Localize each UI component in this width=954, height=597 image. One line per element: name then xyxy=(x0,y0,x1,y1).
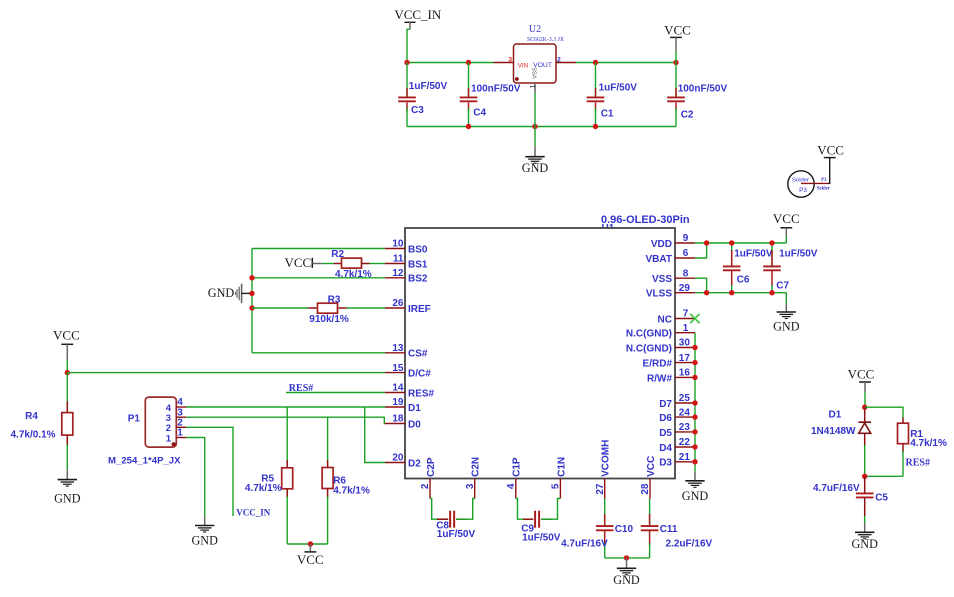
power flag VCC (right of U1) xyxy=(773,211,800,243)
label C4 value xyxy=(471,84,521,95)
svg-text:4: 4 xyxy=(506,483,517,489)
svg-text:18: 18 xyxy=(392,414,404,425)
no-connect X on pin 7 xyxy=(690,314,699,323)
U1 pin 29 VLSS xyxy=(646,283,695,300)
wire VCC to R2 xyxy=(322,263,334,265)
ground GND (below R4) xyxy=(54,469,81,505)
capacitor C4 xyxy=(460,63,478,127)
label R4 value xyxy=(11,429,56,440)
svg-text:21: 21 xyxy=(679,452,691,463)
wire branch D1 to D2 xyxy=(365,407,385,463)
svg-text:GND: GND xyxy=(682,489,709,503)
label U1 part 0.96-OLED-30Pin xyxy=(601,214,690,226)
svg-text:C1P: C1P xyxy=(512,457,523,477)
capacitor C7 xyxy=(763,243,781,293)
svg-text:100nF/50V: 100nF/50V xyxy=(471,84,521,95)
svg-text:C2P: C2P xyxy=(426,457,437,477)
svg-text:E/RD#: E/RD# xyxy=(643,359,673,370)
power flag VCC (below R5/R6) xyxy=(297,544,324,567)
label C2 value xyxy=(678,84,728,95)
svg-text:VCC: VCC xyxy=(297,552,324,567)
net label VCC_IN xyxy=(236,507,271,517)
label C10 value xyxy=(561,539,608,550)
svg-text:1uF/50V: 1uF/50V xyxy=(734,249,773,260)
svg-text:VCC: VCC xyxy=(53,328,80,343)
U1 pin 13 CS# xyxy=(385,343,428,360)
U1 pin 30 N.C(GND) xyxy=(626,338,695,355)
node junction C7 top xyxy=(769,240,774,245)
diode D1 xyxy=(858,407,871,476)
svg-text:R4: R4 xyxy=(25,411,38,422)
svg-text:SC662K-3.3 JX: SC662K-3.3 JX xyxy=(527,37,565,43)
svg-text:Solder: Solder xyxy=(792,177,809,183)
svg-text:2: 2 xyxy=(557,56,561,63)
svg-text:R3: R3 xyxy=(328,294,341,305)
power flag VCC (at R2) xyxy=(284,255,322,270)
svg-text:RES#: RES# xyxy=(408,388,435,399)
U1 pin 17 E/RD# xyxy=(643,353,695,370)
wire VLSS rail xyxy=(695,292,786,294)
U1 pin 20 D2 xyxy=(385,453,421,470)
label P1 ref xyxy=(128,414,141,425)
label R1 value xyxy=(910,438,947,449)
svg-text:4.7uF/16V: 4.7uF/16V xyxy=(561,539,608,550)
node junction chain y417.1 xyxy=(692,414,697,419)
svg-text:VCC: VCC xyxy=(646,456,657,477)
svg-text:GND: GND xyxy=(208,286,235,300)
svg-text:16: 16 xyxy=(679,368,691,379)
node junction chain y461.8 xyxy=(692,459,697,464)
resistor R4 xyxy=(62,373,73,470)
svg-text:4.7k/1%: 4.7k/1% xyxy=(333,486,370,497)
label C7 ref xyxy=(776,281,789,292)
wire CS# xyxy=(252,352,385,354)
P1 pin 3 xyxy=(176,407,186,418)
resistor R2 xyxy=(334,258,370,268)
svg-text:D6: D6 xyxy=(659,413,672,424)
U1 pin 25 D7 xyxy=(659,393,695,410)
wire P1 pin1 to GND xyxy=(186,438,204,517)
svg-text:N.C(GND): N.C(GND) xyxy=(626,343,672,354)
net label RES# xyxy=(289,383,313,394)
svg-text:12: 12 xyxy=(392,268,404,279)
svg-text:28: 28 xyxy=(640,483,651,495)
wire U2 VSS to GND xyxy=(534,93,536,146)
svg-text:D2: D2 xyxy=(408,458,421,469)
U1 pin 21 D3 xyxy=(659,452,695,469)
svg-text:3: 3 xyxy=(508,56,512,63)
label R6 ref xyxy=(333,475,346,486)
svg-text:VCC_IN: VCC_IN xyxy=(236,507,271,517)
label C7 value xyxy=(779,249,818,260)
svg-text:VCOMH: VCOMH xyxy=(601,440,612,477)
svg-text:9: 9 xyxy=(683,233,689,244)
capacitor C3 xyxy=(398,63,416,127)
svg-text:C5: C5 xyxy=(875,492,888,503)
svg-text:C7: C7 xyxy=(776,281,789,292)
svg-text:VCC: VCC xyxy=(848,367,875,382)
power flag VCC (at P3) xyxy=(817,143,844,158)
label C10 ref xyxy=(615,524,634,535)
svg-text:27: 27 xyxy=(595,483,606,495)
node junction C6 top xyxy=(729,240,734,245)
svg-text:VSS: VSS xyxy=(652,274,672,285)
node junction BS2 xyxy=(249,275,254,280)
svg-text:25: 25 xyxy=(679,393,691,404)
P3 pin 1 xyxy=(801,178,831,191)
svg-text:N.C(GND): N.C(GND) xyxy=(626,329,672,340)
svg-text:GND: GND xyxy=(773,320,800,334)
node junction C3 top xyxy=(404,60,409,65)
label R5 ref xyxy=(261,474,274,485)
ground GND (right of U1) xyxy=(773,303,800,333)
P1 pin 1 xyxy=(176,428,186,439)
label R5 value xyxy=(245,483,282,494)
voltage regulator U2 xyxy=(514,24,565,83)
label R4 ref xyxy=(25,411,38,422)
wire VCC branch to R1 xyxy=(865,407,903,418)
U1 pin 22 D4 xyxy=(659,437,695,454)
P1 pin 2 xyxy=(176,418,186,429)
label C11 ref xyxy=(660,524,678,535)
svg-text:1N4148W: 1N4148W xyxy=(811,426,856,437)
svg-text:VDD: VDD xyxy=(651,239,672,250)
svg-text:P3: P3 xyxy=(821,178,827,183)
svg-text:1: 1 xyxy=(177,428,183,439)
connector P1 body xyxy=(145,397,176,447)
ground GND (top section) xyxy=(522,146,549,175)
svg-text:10: 10 xyxy=(392,239,404,250)
wire top rail VCC_IN to U2 VIN xyxy=(407,62,494,64)
svg-text:0.96-OLED-30Pin: 0.96-OLED-30Pin xyxy=(601,214,690,226)
U1 pin 9 VDD xyxy=(651,233,695,250)
svg-text:C4: C4 xyxy=(473,108,486,119)
capacitor C8 xyxy=(430,499,475,528)
wire BS2 xyxy=(252,277,385,279)
label R2 value xyxy=(335,269,372,280)
U1 pin 26 IREF xyxy=(385,298,431,315)
power flag VCC_IN xyxy=(394,7,442,63)
svg-text:GND: GND xyxy=(613,573,640,587)
resistor R1 xyxy=(898,418,909,477)
svg-text:GND: GND xyxy=(54,492,81,506)
node junction chain y431.9 xyxy=(692,429,697,434)
svg-text:C10: C10 xyxy=(615,524,634,535)
wire vertical bus (BS0/BS2/IREF/CS#) xyxy=(251,249,253,353)
node junction D1 top xyxy=(862,405,867,410)
svg-text:U2: U2 xyxy=(529,24,541,35)
ground GND (below C5) xyxy=(851,523,878,551)
U1 pin 18 D0 xyxy=(385,414,421,431)
label C1 ref xyxy=(601,109,614,120)
U1 pin 2 C2P xyxy=(420,457,437,498)
label P1 part xyxy=(108,455,181,466)
U1 pin 6 VBAT xyxy=(646,248,695,265)
svg-text:19: 19 xyxy=(392,397,404,408)
svg-text:P3: P3 xyxy=(799,187,807,194)
svg-text:VCC: VCC xyxy=(284,255,311,270)
svg-text:C2: C2 xyxy=(681,110,694,121)
U1 pin 24 D6 xyxy=(659,407,695,424)
svg-text:VCC_IN: VCC_IN xyxy=(394,7,442,22)
node junction C10/C11 GND xyxy=(624,555,629,560)
wire BS0 xyxy=(252,248,385,250)
node junction VSS/VLSS xyxy=(704,290,709,295)
label C6 value xyxy=(734,249,773,260)
svg-text:R/W#: R/W# xyxy=(647,373,672,384)
label R2 ref xyxy=(331,249,344,260)
capacitor C2 xyxy=(667,63,685,127)
U1 pin 28 VCC xyxy=(640,456,657,499)
svg-text:4.7k/0.1%: 4.7k/0.1% xyxy=(11,429,56,440)
svg-text:4.7k/1%: 4.7k/1% xyxy=(245,483,282,494)
label C3 ref xyxy=(411,105,424,116)
svg-text:BS1: BS1 xyxy=(408,259,428,270)
svg-text:13: 13 xyxy=(392,343,404,354)
svg-text:IREF: IREF xyxy=(408,304,431,315)
svg-text:VCC: VCC xyxy=(664,22,691,37)
U1 pin 1 N.C(GND) xyxy=(626,323,695,340)
label R6 value xyxy=(333,486,370,497)
label R1 ref xyxy=(910,429,923,440)
svg-text:GND: GND xyxy=(851,537,878,551)
node junction chain y362.6 xyxy=(692,360,697,365)
svg-text:C3: C3 xyxy=(411,105,424,116)
ground GND (below P1) xyxy=(191,517,218,548)
wire R5/R6 bottom xyxy=(287,543,327,545)
label C9 ref xyxy=(521,524,534,535)
svg-text:BS2: BS2 xyxy=(408,274,428,285)
svg-text:29: 29 xyxy=(679,283,691,294)
svg-text:M_254_1*4P_JX: M_254_1*4P_JX xyxy=(108,455,181,466)
wire U2 VOUT to VCC rail xyxy=(576,62,676,64)
OLED module U1 body xyxy=(405,228,675,479)
capacitor C11 xyxy=(641,499,659,558)
label C5 value xyxy=(813,483,860,494)
resistor R6 xyxy=(322,417,333,544)
svg-text:CS#: CS# xyxy=(408,349,428,360)
svg-text:VBAT: VBAT xyxy=(646,254,672,265)
node junction VCC pullups xyxy=(308,541,313,546)
node junction C2/VCC top xyxy=(673,60,678,65)
wire VLSS rail to GND xyxy=(785,293,787,304)
svg-text:5: 5 xyxy=(551,483,562,489)
svg-text:100nF/50V: 100nF/50V xyxy=(678,84,728,95)
svg-text:D5: D5 xyxy=(659,428,672,439)
node junction C4 bottom xyxy=(466,124,471,129)
svg-text:8: 8 xyxy=(683,268,689,279)
wire R2 to BS1 xyxy=(370,263,386,265)
label C4 ref xyxy=(473,108,486,119)
node junction chain y347.5 xyxy=(692,345,697,350)
svg-text:D3: D3 xyxy=(659,458,672,469)
svg-text:C1: C1 xyxy=(601,109,614,120)
label C8 ref xyxy=(436,520,449,531)
ground GND (below C10/C11) xyxy=(613,558,640,587)
power flag VCC (top) xyxy=(664,22,691,62)
svg-text:VCC: VCC xyxy=(773,211,800,226)
node junction chain y377.4 xyxy=(692,375,697,380)
node junction C7 bottom xyxy=(769,290,774,295)
resistor R5 xyxy=(282,407,293,544)
svg-text:1: 1 xyxy=(530,84,537,88)
svg-text:30: 30 xyxy=(679,338,691,349)
node junction chain y403 xyxy=(692,400,697,405)
svg-text:VSS: VSS xyxy=(532,67,538,78)
wire P1 pin4 to D1 xyxy=(186,406,385,408)
wire VDD rail xyxy=(695,242,786,244)
P1 pin 4 xyxy=(176,397,186,408)
U1 pin 11 BS1 xyxy=(385,254,428,271)
node junction GND flag xyxy=(249,291,254,296)
capacitor C5 xyxy=(856,476,874,523)
U2 pin 2 VOUT xyxy=(556,56,576,63)
svg-text:C11: C11 xyxy=(660,524,678,535)
label C6 ref xyxy=(737,275,750,286)
wire top-section ground rail xyxy=(407,126,676,128)
svg-text:D0: D0 xyxy=(408,419,421,430)
U1 pin 19 D1 xyxy=(385,397,421,414)
svg-text:4.7uF/16V: 4.7uF/16V xyxy=(813,483,860,494)
U1 pin 8 VSS xyxy=(652,268,695,285)
svg-text:22: 22 xyxy=(679,437,691,448)
wire bus to R3 xyxy=(252,307,309,309)
wire P1 pin2 to VCC_IN xyxy=(186,427,233,516)
label C1 value xyxy=(599,83,638,94)
svg-text:D4: D4 xyxy=(659,443,672,454)
label U1 ref xyxy=(602,223,615,234)
U2 pin 1 VSS xyxy=(530,83,537,93)
resistor R3 xyxy=(309,303,347,313)
svg-text:D1: D1 xyxy=(829,409,842,420)
node junction C1 bottom xyxy=(593,124,598,129)
svg-text:RES#: RES# xyxy=(906,457,930,468)
node junction C1 top xyxy=(593,60,598,65)
U1 pin 14 RES# xyxy=(385,383,435,400)
wire N.C/data ground chain xyxy=(694,333,696,472)
wire VBAT to VDD rail xyxy=(695,243,707,258)
U1 pin 5 C1N xyxy=(551,457,568,499)
solder jumper P3 xyxy=(788,171,814,197)
wire P1 pin3 to D0 xyxy=(186,417,385,423)
ground GND flag (rotated, left) xyxy=(208,284,252,303)
svg-text:NC: NC xyxy=(658,314,672,325)
svg-text:1uF/50V: 1uF/50V xyxy=(437,529,476,540)
svg-text:GND: GND xyxy=(522,161,549,175)
svg-text:D7: D7 xyxy=(659,399,672,410)
node junction VDD/VBAT xyxy=(704,240,709,245)
svg-text:VIN: VIN xyxy=(518,62,528,69)
svg-text:20: 20 xyxy=(392,453,404,464)
U1 pin 3 C2N xyxy=(465,457,482,499)
node junction U2 VSS / rail xyxy=(532,124,537,129)
power flag VCC (at D1) xyxy=(848,367,875,408)
svg-text:26: 26 xyxy=(392,298,404,309)
net label RES# (at R1) xyxy=(906,457,930,468)
node junction chain y447 xyxy=(692,444,697,449)
wire VSS to VLSS rail xyxy=(695,278,707,293)
U1 pin 16 R/W# xyxy=(647,368,695,385)
U1 pin 4 C1P xyxy=(506,457,523,498)
svg-text:1: 1 xyxy=(166,433,172,444)
svg-text:1uF/50V: 1uF/50V xyxy=(409,81,448,92)
svg-text:2: 2 xyxy=(420,483,431,489)
svg-text:C6: C6 xyxy=(737,275,750,286)
U1 pin 23 D5 xyxy=(659,422,695,439)
svg-text:1uF/50V: 1uF/50V xyxy=(522,532,561,543)
label C5 ref xyxy=(875,492,888,503)
svg-text:1: 1 xyxy=(683,323,689,334)
svg-text:R2: R2 xyxy=(331,249,344,260)
svg-text:17: 17 xyxy=(679,353,691,364)
svg-text:D1: D1 xyxy=(408,403,421,414)
node junction R4 top xyxy=(65,370,70,375)
label R3 value xyxy=(309,314,349,325)
wire R3 to IREF xyxy=(347,307,386,309)
svg-text:4.7k/1%: 4.7k/1% xyxy=(335,269,372,280)
node junction C4 top xyxy=(466,60,471,65)
svg-text:23: 23 xyxy=(679,422,691,433)
node junction D1 bottom xyxy=(862,474,867,479)
svg-text:2.2uF/16V: 2.2uF/16V xyxy=(666,539,713,550)
svg-text:C2N: C2N xyxy=(471,457,482,477)
svg-text:GND: GND xyxy=(191,534,218,548)
label C11 value xyxy=(666,539,713,550)
power flag VCC (at R4) xyxy=(53,328,80,373)
label C9 value xyxy=(522,532,561,543)
svg-text:6: 6 xyxy=(683,248,689,259)
capacitor C10 xyxy=(596,499,614,558)
svg-text:4.7k/1%: 4.7k/1% xyxy=(910,438,947,449)
wire R1 bottom to D1 bottom xyxy=(865,475,903,477)
U1 pin 12 BS2 xyxy=(385,268,428,285)
svg-text:3: 3 xyxy=(465,483,476,489)
ground GND (below data pins) xyxy=(682,471,709,503)
svg-text:P1: P1 xyxy=(128,414,141,425)
svg-text:7: 7 xyxy=(683,309,689,320)
svg-text:14: 14 xyxy=(392,383,404,394)
svg-text:Solder: Solder xyxy=(817,186,831,191)
svg-text:11: 11 xyxy=(393,254,404,265)
wire C10/C11 bottom xyxy=(605,557,650,559)
svg-text:1uF/50V: 1uF/50V xyxy=(779,249,818,260)
node junction IREF xyxy=(249,305,254,310)
label C3 value xyxy=(409,81,448,92)
U2 pin 3 VIN xyxy=(494,56,514,63)
U1 pin 10 BS0 xyxy=(385,239,428,256)
svg-text:C1N: C1N xyxy=(556,457,567,477)
label C8 value xyxy=(437,529,476,540)
svg-text:D/C#: D/C# xyxy=(408,369,431,380)
capacitor C6 xyxy=(723,243,741,293)
svg-text:15: 15 xyxy=(392,363,404,374)
label C2 ref xyxy=(681,110,694,121)
U1 pin 7 NC xyxy=(658,309,695,326)
wire P3 to VCC xyxy=(828,158,830,184)
label D1 ref xyxy=(829,409,842,420)
capacitor C1 xyxy=(587,63,605,127)
U1 pin 15 D/C# xyxy=(385,363,431,380)
svg-text:VCC: VCC xyxy=(817,143,844,158)
label D1 value xyxy=(811,426,856,437)
svg-text:910k/1%: 910k/1% xyxy=(309,314,349,325)
node junction C6 bottom xyxy=(729,290,734,295)
capacitor C9 xyxy=(516,499,561,528)
svg-text:VLSS: VLSS xyxy=(646,289,672,300)
U1 pin 27 VCOMH xyxy=(595,440,612,499)
wire D/C# xyxy=(67,372,385,374)
label R3 ref xyxy=(328,294,341,305)
